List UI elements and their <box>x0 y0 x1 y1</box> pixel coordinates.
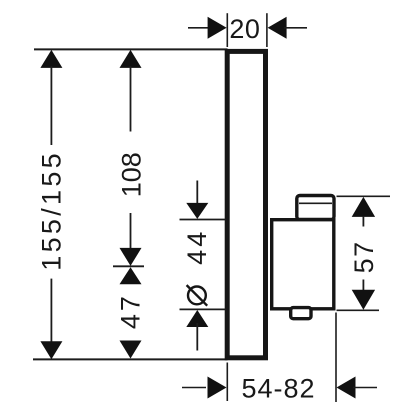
svg-text:47: 47 <box>115 293 145 329</box>
bottom reference line <box>33 358 228 360</box>
handle top tab inner line <box>299 202 332 204</box>
svg-text:44: 44 <box>182 229 212 265</box>
dim 108 top arrow <box>120 50 142 68</box>
svg-text:155/155: 155/155 <box>37 150 67 271</box>
dim 155/155 bottom arrow <box>40 341 62 359</box>
svg-text:20: 20 <box>229 14 260 44</box>
dim 44 bottom arrow <box>186 310 208 327</box>
dim 57 lower stub <box>362 280 364 292</box>
tick between 108 and 47 <box>113 265 144 267</box>
dim 44 top arrow <box>186 203 208 219</box>
diameter symbol <box>187 285 208 306</box>
dim 20 left arrow <box>188 17 227 39</box>
dim 108 bottom arrow <box>120 248 142 266</box>
dim 108 line lower <box>130 213 132 252</box>
dim 20 right arrow <box>268 17 307 39</box>
dim 57 bottom arrow <box>352 290 375 310</box>
dim 108 line upper <box>130 66 132 132</box>
dim 155/155 top arrow <box>40 50 62 68</box>
dim 54-82 right arrow <box>337 377 378 399</box>
dim 47 top arrow <box>120 267 142 284</box>
dim 20 extension line right <box>266 13 268 47</box>
dim 57 upper stub <box>362 216 364 227</box>
dim 20 extension line left <box>226 13 228 47</box>
handle body <box>272 220 334 309</box>
svg-text:57: 57 <box>349 240 379 273</box>
handle top tab <box>297 196 334 220</box>
dim 54-82 left arrow <box>182 377 227 399</box>
dim 57 bottom extension line <box>337 309 380 311</box>
dim 155/155 line upper <box>50 66 52 145</box>
dim 155/155 line lower <box>50 279 52 343</box>
plate (escutcheon side view) <box>227 51 265 357</box>
dim 44 bottom tick <box>180 308 227 310</box>
dim 57 top extension line <box>337 195 391 197</box>
dim 57 top arrow <box>352 197 375 217</box>
dim 54-82 left extension line <box>226 363 228 402</box>
svg-text:54-82: 54-82 <box>241 373 315 403</box>
svg-text:108: 108 <box>116 152 146 197</box>
dim 54-82 right extension line <box>335 313 337 403</box>
handle bottom tab <box>291 308 311 319</box>
dim 44 top tick <box>180 219 227 221</box>
dim 44 lower line <box>196 323 198 351</box>
dim 44 upper line <box>196 181 198 207</box>
top reference line <box>34 48 228 50</box>
dim 47 bottom arrow <box>120 341 142 359</box>
